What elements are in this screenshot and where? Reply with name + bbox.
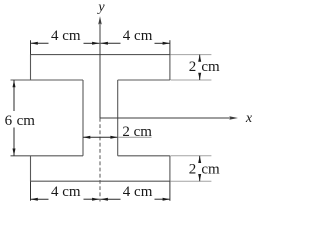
bottom flange bottom edge bbox=[31, 180, 170, 182]
2 cm dimension (bottom right) bbox=[199, 156, 201, 181]
y axis dashed extension below x axis bbox=[99, 118, 101, 202]
svg-text:2: 2 bbox=[189, 59, 197, 75]
arrowheads 2 cm bottom-right dimension bbox=[198, 156, 201, 181]
svg-text:2 cm: 2 cm bbox=[122, 124, 152, 140]
svg-text:cm: cm bbox=[201, 161, 220, 177]
svg-text:4 cm: 4 cm bbox=[51, 28, 81, 44]
2 cm dimension (center) bbox=[83, 136, 118, 138]
arrowheads 2 cm top-right dimension bbox=[198, 55, 201, 80]
2 cm dimension (top right) bbox=[199, 55, 201, 80]
svg-text:y: y bbox=[96, 0, 105, 15]
notch inner vertical bbox=[117, 80, 119, 156]
y axis arrowhead bbox=[98, 16, 102, 24]
svg-text:4 cm: 4 cm bbox=[123, 184, 153, 200]
arrowheads top 4 cm dimensions bbox=[31, 42, 170, 45]
bottom dimension lines 4 cm / 4 cm bbox=[31, 198, 170, 200]
bottom flange left edge bbox=[30, 156, 32, 181]
x axis arrowhead bbox=[229, 116, 238, 119]
left square right edge bbox=[82, 80, 84, 156]
top flange bottom edge right of notch bbox=[118, 79, 170, 81]
bottom right tick bbox=[169, 181, 171, 201]
y axis solid bbox=[99, 22, 101, 119]
top right tick bbox=[169, 40, 171, 54]
bottom left tick bbox=[30, 181, 32, 201]
svg-text:2: 2 bbox=[189, 161, 197, 177]
top left tick bbox=[30, 40, 32, 54]
svg-text:4 cm: 4 cm bbox=[123, 28, 153, 44]
top flange right edge bbox=[169, 55, 171, 80]
svg-text:6: 6 bbox=[5, 113, 13, 129]
svg-text:4 cm: 4 cm bbox=[51, 184, 81, 200]
bottom flange top edge right of notch bbox=[118, 155, 170, 157]
beam section outline bbox=[11, 55, 170, 182]
svg-text:cm: cm bbox=[17, 113, 36, 129]
top flange left edge bbox=[30, 55, 32, 80]
top flange top edge bbox=[31, 54, 170, 56]
extension lines right side bbox=[171, 55, 212, 182]
svg-text:x: x bbox=[245, 111, 253, 126]
left square bottom edge bbox=[11, 155, 84, 157]
x axis bbox=[100, 117, 236, 119]
arrowheads bottom 4 cm dimensions bbox=[31, 198, 170, 201]
6 cm dimension (left) bbox=[13, 80, 15, 156]
top dimension lines 4 cm / 4 cm bbox=[31, 42, 170, 44]
bottom flange right edge bbox=[169, 156, 171, 181]
arrowheads 2 cm center dimension bbox=[83, 136, 118, 139]
arrowheads 6 cm dimension bbox=[13, 80, 16, 156]
svg-text:cm: cm bbox=[201, 59, 220, 75]
left square top edge bbox=[11, 79, 84, 81]
dimension ticks bbox=[31, 40, 170, 201]
